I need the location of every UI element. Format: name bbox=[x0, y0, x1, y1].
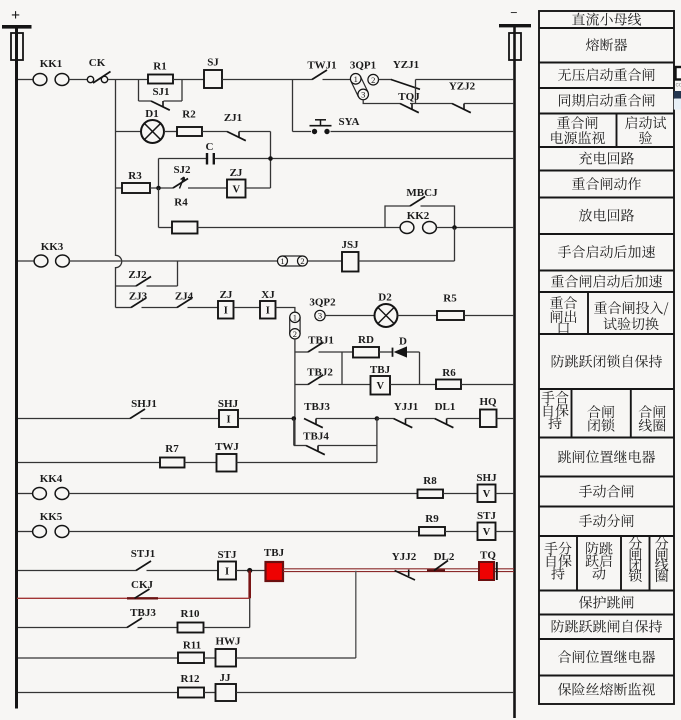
svg-text:TBJ: TBJ bbox=[264, 547, 285, 559]
svg-text:co: co bbox=[676, 82, 681, 89]
svg-text:I: I bbox=[266, 306, 270, 317]
svg-text:R11: R11 bbox=[183, 640, 201, 652]
cropped overlay box at right edge bbox=[676, 67, 681, 80]
svg-text:TQ: TQ bbox=[480, 550, 496, 562]
svg-text:C: C bbox=[206, 141, 214, 153]
switch CK bbox=[87, 57, 110, 83]
svg-text:I: I bbox=[224, 306, 228, 317]
wire D2 to R5 bbox=[398, 315, 438, 317]
function table frame bbox=[539, 11, 674, 704]
capacitor C bbox=[206, 141, 214, 165]
node junction KK2/JSJ bbox=[452, 225, 457, 230]
wire vertical from 3QP2 pin2 down to TBJ rows bbox=[294, 339, 296, 446]
wire vertical ZJ2 to KK3 row bbox=[177, 261, 179, 286]
wire SJ1 parallel branch verticals bbox=[139, 80, 183, 102]
svg-text:YZJ2: YZJ2 bbox=[449, 81, 476, 93]
relay coil (voltage) ZJ bbox=[227, 167, 246, 198]
resistor R2 bbox=[177, 109, 202, 137]
svg-text:JSJ: JSJ bbox=[341, 239, 359, 251]
table text 充电回路 bbox=[579, 152, 634, 165]
table text 手动分闸 bbox=[579, 514, 634, 527]
svg-text:−: − bbox=[510, 5, 517, 20]
DC negative bus (-) with bar bbox=[499, 5, 531, 718]
contact DL2 (NO) bbox=[427, 551, 455, 571]
table text 手合自保持 bbox=[541, 391, 568, 404]
push button SYA bbox=[310, 116, 360, 134]
relay coil JSJ bbox=[341, 239, 359, 272]
table text 重合闸动作 bbox=[572, 177, 641, 190]
node junction to anti-pump path bbox=[247, 568, 252, 573]
wire + bus to KK4 bbox=[18, 493, 33, 495]
wire red CKJ row (y=598.3) bbox=[17, 597, 250, 599]
wire vertical x=270.5 (ZJ1 row to ZJ coil row) bbox=[270, 132, 272, 189]
relay coil (voltage) SHJ bbox=[476, 472, 497, 502]
wire row1 from + bus to KK1 bbox=[18, 79, 34, 81]
wire to R4 bbox=[159, 227, 173, 229]
table text 无压启动重合闸 bbox=[558, 68, 655, 81]
svg-text:3: 3 bbox=[361, 90, 365, 100]
svg-text:R7: R7 bbox=[165, 443, 179, 455]
contact ZJ1 (NC) bbox=[224, 112, 246, 141]
node junction R3/SJ2 bbox=[156, 186, 161, 191]
contact YZJ1 (NC) bbox=[391, 59, 420, 89]
svg-text:1: 1 bbox=[293, 313, 297, 323]
wire 3QP1 pin3 down to TQJ row bbox=[363, 100, 400, 104]
table text 手分自保持 bbox=[544, 542, 571, 555]
svg-text:SJ2: SJ2 bbox=[173, 164, 191, 176]
svg-text:D2: D2 bbox=[378, 292, 392, 304]
wire RD to diode D bbox=[379, 351, 392, 353]
resistor R5 bbox=[437, 293, 464, 321]
wire + bus to R12 bbox=[18, 692, 178, 694]
relay coil TBJ (operated, highlighted red) bbox=[264, 547, 285, 581]
resistor R4 bbox=[172, 197, 198, 234]
relay coil (current) SHJ bbox=[218, 398, 239, 427]
wire junction to YJJ1 bbox=[377, 418, 394, 420]
wire conductor to R3 bbox=[116, 187, 123, 189]
fuse FU1 on left bus bbox=[11, 33, 23, 60]
svg-text:KK5: KK5 bbox=[40, 511, 63, 523]
contact TBJ1 (NO) bbox=[308, 335, 334, 353]
wire YZJ2 to - bus bbox=[464, 103, 514, 105]
wire vertical TBJ3 junction down to TWJ row (x=376.9) bbox=[376, 419, 378, 463]
wire R12 to JJ bbox=[204, 692, 216, 694]
wire 3QP1-2 to YZJ1 bbox=[379, 79, 393, 81]
resistor R12 bbox=[178, 673, 204, 698]
svg-text:MBCJ: MBCJ bbox=[406, 187, 438, 199]
svg-text:R12: R12 bbox=[181, 673, 200, 685]
table text 分闸闭锁 bbox=[629, 537, 642, 550]
svg-text:TBJ4: TBJ4 bbox=[303, 431, 329, 443]
contact ZJ3 (NO) bbox=[129, 291, 148, 308]
svg-text:SJ1: SJ1 bbox=[152, 86, 169, 98]
wire + bus to KK5 bbox=[18, 531, 33, 533]
svg-text:TBJ3: TBJ3 bbox=[304, 401, 330, 413]
svg-text:TWJ: TWJ bbox=[215, 441, 239, 453]
svg-text:TQJ: TQJ bbox=[398, 91, 420, 103]
svg-text:SJ: SJ bbox=[207, 57, 219, 69]
table text 保险丝熔断监视 bbox=[558, 683, 655, 696]
wire TQJ to YZJ2 bbox=[410, 103, 452, 105]
svg-text:3QP1: 3QP1 bbox=[350, 60, 376, 72]
svg-text:R3: R3 bbox=[128, 170, 142, 182]
table text 重合闸电源监视 bbox=[557, 116, 598, 129]
svg-text:DL1: DL1 bbox=[435, 401, 456, 413]
wire SYA branch vertical from row1 bbox=[292, 80, 294, 132]
contact ZJ2 (NO) bbox=[128, 269, 151, 286]
wire ZJ coil to vertical bbox=[246, 187, 271, 189]
wire plug to JSJ bbox=[308, 260, 342, 262]
wire STJ1 to STJ coil bbox=[147, 570, 219, 572]
contact DL1 (NC) bbox=[435, 401, 456, 428]
svg-text:RD: RD bbox=[358, 334, 374, 346]
wire R10 to vertical bbox=[204, 627, 250, 629]
wire vertical KK2-junction to JSJ row bbox=[454, 228, 456, 262]
switch KK5 bbox=[33, 511, 69, 538]
contact MBCJ (NO) bbox=[406, 187, 438, 206]
svg-text:STJ: STJ bbox=[218, 549, 237, 561]
resistor R8 bbox=[418, 475, 444, 498]
node junction TBJ3 right bbox=[375, 416, 380, 421]
table text 跳闸位置继电器 bbox=[558, 450, 655, 463]
table text 熔断器 bbox=[586, 38, 627, 51]
resistor R11 bbox=[178, 640, 204, 664]
wire KK4 to R8 bbox=[69, 493, 418, 495]
wire ZJ3 to ZJ4 bbox=[142, 307, 178, 309]
contact TBJ2 (NO) bbox=[307, 367, 333, 385]
relay coil SJ bbox=[204, 57, 222, 89]
wire C to - bus bbox=[215, 158, 515, 160]
svg-text:KK3: KK3 bbox=[41, 241, 64, 253]
wire R4 to KK2 bbox=[198, 227, 401, 229]
wire DL1 to HQ bbox=[447, 418, 480, 420]
table text 合闸闭锁 bbox=[588, 405, 615, 418]
svg-text:ZJ4: ZJ4 bbox=[175, 291, 194, 303]
wire ZJ to XJ bbox=[234, 307, 261, 309]
resistor R9 bbox=[419, 513, 445, 536]
wire STJ to - bus bbox=[496, 531, 515, 533]
contact TQJ (NC) bbox=[398, 91, 420, 113]
wire + bus to R7 bbox=[18, 462, 160, 464]
wire HQ to - bus bbox=[497, 418, 515, 420]
wire conductor to ZJ3 bbox=[116, 307, 132, 309]
svg-text:JJ: JJ bbox=[220, 672, 232, 684]
svg-text:YJJ2: YJJ2 bbox=[392, 551, 417, 563]
table text 重合闸出口 bbox=[550, 296, 577, 309]
wire MBCJ parallel branch bbox=[385, 206, 455, 228]
resistor R7 bbox=[160, 443, 185, 468]
wire KK3 to plug bbox=[69, 260, 278, 262]
wire to TBJ4 bbox=[294, 445, 306, 447]
svg-text:2: 2 bbox=[371, 75, 375, 85]
svg-text:ZJ1: ZJ1 bbox=[224, 112, 242, 124]
wire JJ to - bus bbox=[236, 692, 514, 694]
svg-text:ZJ3: ZJ3 bbox=[129, 291, 148, 303]
cropped overlay navy bar bbox=[674, 91, 681, 99]
svg-text:STJ: STJ bbox=[477, 510, 496, 522]
relay coil JJ bbox=[216, 672, 237, 701]
contact YZJ2 (NC) bbox=[449, 81, 476, 113]
contact YJJ2 (NC) bbox=[392, 551, 417, 580]
resistor R3 bbox=[122, 170, 150, 193]
svg-text:SHJ: SHJ bbox=[218, 398, 239, 410]
wire YZJ1 to - bus bbox=[416, 79, 515, 81]
wire SJ2 to ZJ coil bbox=[188, 187, 227, 189]
table text 合闸位置继电器 bbox=[558, 650, 655, 663]
svg-text:KK1: KK1 bbox=[40, 58, 63, 70]
svg-text:CK: CK bbox=[89, 57, 106, 69]
table text 启动试验 bbox=[625, 116, 666, 129]
svg-text:XJ: XJ bbox=[261, 289, 275, 301]
wire R9 to STJ coil bbox=[445, 531, 478, 533]
relay coil HWJ bbox=[215, 636, 241, 667]
table text 重合闸启动后加速 bbox=[551, 275, 662, 288]
contact ZJ4 (NO) bbox=[175, 291, 194, 308]
wire R6 to - bus bbox=[461, 384, 514, 386]
wire KK5 to R9 bbox=[69, 531, 419, 533]
svg-text:R9: R9 bbox=[425, 513, 439, 525]
contact TBJ4 (NC) bbox=[303, 431, 329, 455]
relay coil (current) STJ bbox=[218, 549, 237, 580]
node junction TBJ3 left bbox=[292, 416, 297, 421]
connector 3QP1 (pins 1,2,3) bbox=[351, 77, 368, 97]
wire vertical RD/D row to R6 row (x=419.5) bbox=[419, 352, 421, 385]
svg-text:V: V bbox=[376, 381, 384, 392]
svg-text:TBJ1: TBJ1 bbox=[308, 335, 334, 347]
wire + bus to STJ1 bbox=[18, 570, 136, 572]
svg-text:YZJ1: YZJ1 bbox=[393, 59, 419, 71]
wire red trip path TBJ to TQ bbox=[283, 569, 514, 572]
svg-text:D: D bbox=[399, 336, 407, 348]
time-delay arrow of SJ2 bbox=[180, 177, 185, 189]
wire TBJ3 to junction bbox=[316, 418, 377, 420]
contact TBJ3 (NC) bbox=[304, 401, 330, 428]
svg-text:1: 1 bbox=[354, 74, 358, 84]
svg-text:SHJ1: SHJ1 bbox=[131, 398, 157, 410]
svg-text:1: 1 bbox=[280, 256, 284, 266]
relay coil (current) ZJ bbox=[218, 289, 234, 319]
wire + bus to TBJ3 bbox=[18, 627, 127, 629]
svg-text:3: 3 bbox=[318, 311, 322, 321]
relay coil HQ bbox=[479, 396, 497, 427]
table text 保护跳闸 bbox=[579, 596, 634, 609]
svg-text:KK4: KK4 bbox=[40, 473, 63, 485]
table text 手合启动后加速 bbox=[558, 245, 655, 258]
table text 直流小母线 bbox=[572, 13, 641, 26]
table text 放电回路 bbox=[579, 209, 634, 222]
wire TBJ1 to RD bbox=[319, 351, 354, 353]
wire TBJ2 to TBJ coil bbox=[319, 384, 371, 386]
contact SHJ1 (NO) bbox=[130, 398, 157, 419]
wire vertical junction down to R10 row bbox=[249, 598, 251, 627]
table text 重合闸投入/试验切换 bbox=[594, 301, 668, 315]
contact SJ2 (NO) bbox=[173, 164, 191, 188]
table text 分闸线圈 bbox=[655, 537, 668, 550]
fuse FU2 on right bus bbox=[509, 33, 521, 60]
svg-text:YJJ1: YJJ1 bbox=[394, 401, 418, 413]
wire ZJ1 to vertical bbox=[239, 131, 271, 133]
svg-text:V: V bbox=[483, 527, 491, 538]
connector 3QP2 (pins 1,2,3) bbox=[290, 317, 300, 334]
wire TBJ4 to vertical bbox=[318, 445, 377, 447]
wire + bus to SHJ1 bbox=[18, 418, 130, 420]
wire KK1 to CK bbox=[68, 79, 87, 81]
wire ZJ4 to ZJ coil bbox=[188, 307, 219, 309]
svg-text:+: + bbox=[11, 7, 20, 24]
svg-text:R10: R10 bbox=[181, 608, 200, 620]
wire R1 to SJ bbox=[173, 79, 204, 81]
resistor R1 bbox=[148, 61, 173, 84]
wire KK2 to - bus bbox=[436, 227, 514, 229]
relay coil (voltage) STJ bbox=[477, 510, 496, 540]
switch KK1 bbox=[33, 58, 69, 86]
wire YZJ1 down to TQJ row bbox=[415, 80, 417, 104]
svg-text:3QP2: 3QP2 bbox=[309, 297, 336, 309]
table text 手动合闸 bbox=[579, 485, 634, 498]
wire JSJ to vertical bbox=[359, 260, 455, 262]
svg-text:SHJ: SHJ bbox=[476, 472, 497, 484]
contact STJ1 (NO) bbox=[131, 548, 155, 571]
table text 防跳跃启动 bbox=[586, 542, 612, 555]
svg-text:HQ: HQ bbox=[479, 396, 497, 408]
wire to TBJ2 bbox=[295, 384, 308, 386]
wire STJ coil to TBJ coil bbox=[236, 570, 266, 572]
wire SHJ to - bus bbox=[496, 493, 515, 495]
svg-text:I: I bbox=[225, 566, 229, 577]
svg-text:V: V bbox=[232, 184, 240, 195]
svg-text:R1: R1 bbox=[153, 61, 166, 73]
wire C row left vertical bbox=[158, 159, 160, 189]
wire conductor to ZJ2 bbox=[116, 285, 137, 287]
wire vertical TQ row down to HWJ row (x=355.8) bbox=[355, 571, 357, 658]
svg-text:R4: R4 bbox=[174, 197, 188, 209]
wire R8 to SHJ coil bbox=[443, 493, 478, 495]
diode D bbox=[393, 336, 408, 358]
contact CKJ (NO) bbox=[127, 579, 158, 598]
svg-text:ZJ: ZJ bbox=[220, 289, 233, 301]
wire + bus to R11 bbox=[18, 657, 178, 659]
resistor R10 bbox=[178, 608, 204, 633]
svg-text:I: I bbox=[226, 414, 230, 425]
table text 防跳跃闭锁自保持 bbox=[552, 355, 662, 368]
wire D1 to R2 bbox=[164, 131, 177, 133]
svg-text:TBJ3: TBJ3 bbox=[130, 607, 156, 619]
switch KK3 bbox=[34, 241, 69, 267]
svg-text:D1: D1 bbox=[145, 108, 158, 120]
relay coil (voltage) TBJ bbox=[370, 364, 391, 395]
resistor R6 bbox=[436, 367, 461, 389]
wire TWJ to vertical bbox=[237, 462, 377, 464]
wire SHJ to junction bbox=[238, 418, 294, 420]
lamp D1 bbox=[141, 108, 164, 143]
contact TBJ3 (NO) bbox=[127, 607, 156, 628]
svg-text:TBJ2: TBJ2 bbox=[307, 367, 333, 379]
wire vertical TBJ1-TBJ2 (x=342) bbox=[341, 352, 343, 385]
wire XJ to connector 3QP2 bbox=[276, 308, 295, 313]
svg-text:ZJ: ZJ bbox=[230, 167, 243, 179]
svg-text:V: V bbox=[483, 489, 491, 500]
svg-text:HWJ: HWJ bbox=[215, 636, 241, 648]
connector plug (pins 1,2) on JSJ row bbox=[283, 256, 303, 266]
wire to capacitor C bbox=[159, 158, 207, 160]
svg-text:STJ1: STJ1 bbox=[131, 548, 155, 560]
wire R3 to SJ2 bbox=[150, 187, 173, 189]
svg-text:SYA: SYA bbox=[339, 116, 360, 128]
relay coil (current) XJ bbox=[260, 289, 276, 319]
wire vertical conductor A (x=115.5) with hop over KK3 row bbox=[116, 80, 122, 308]
svg-text:2: 2 bbox=[293, 329, 297, 339]
svg-text:KK2: KK2 bbox=[407, 210, 430, 222]
wire R11 to HWJ bbox=[204, 657, 216, 659]
svg-text:TWJ1: TWJ1 bbox=[307, 60, 336, 72]
table text 合闸线圈 bbox=[639, 405, 666, 418]
contact YJJ1 (NC) bbox=[394, 401, 419, 428]
resistor RD bbox=[353, 334, 379, 358]
svg-text:DL2: DL2 bbox=[434, 551, 455, 563]
relay coil TWJ bbox=[215, 441, 239, 472]
wire 3QP2-3 to D2 bbox=[325, 315, 374, 317]
wire to TBJ1 bbox=[295, 351, 308, 353]
wire CK to R1 bbox=[108, 79, 148, 81]
table text 同期启动重合闸 bbox=[559, 94, 655, 107]
wire vertical TBJ4 left (x=293.8) bbox=[293, 419, 295, 446]
wire SYA row to - bus bbox=[293, 131, 515, 133]
svg-text:R2: R2 bbox=[182, 109, 196, 121]
switch KK2 bbox=[400, 210, 436, 234]
wire + bus to KK3 bbox=[18, 260, 34, 262]
wire conductor to D1 bbox=[116, 131, 142, 133]
svg-text:CKJ: CKJ bbox=[131, 579, 154, 591]
wire D to vertical bbox=[407, 351, 420, 353]
wire HWJ to vertical bbox=[236, 657, 356, 659]
svg-text:R8: R8 bbox=[423, 475, 437, 487]
wire TBJ3 to R10 bbox=[138, 627, 178, 629]
wire R7 to TWJ bbox=[185, 462, 217, 464]
switch KK4 bbox=[33, 473, 69, 500]
wire R5 to - bus bbox=[464, 315, 514, 317]
wire SHJ1 to SHJ coil bbox=[141, 418, 220, 420]
svg-text:2: 2 bbox=[300, 256, 304, 266]
node junction on C row bbox=[268, 156, 273, 161]
wire ZJ2 to vertical bbox=[147, 285, 178, 287]
wire vertical junction to R4 row bbox=[158, 188, 160, 228]
svg-text:ZJ2: ZJ2 bbox=[128, 269, 147, 281]
svg-text:R5: R5 bbox=[443, 293, 457, 305]
lamp D2 bbox=[375, 292, 398, 328]
wire red vertical self-hold (x=249.7) bbox=[248, 571, 251, 599]
wire TBJ coil to R6 bbox=[390, 384, 436, 386]
wire SJ to TWJ1 bbox=[222, 79, 312, 81]
svg-text:TBJ: TBJ bbox=[370, 364, 391, 376]
DC positive bus (+) with bar bbox=[2, 7, 32, 709]
relay coil TQ (trip coil, highlighted red) bbox=[479, 550, 497, 581]
wire YJJ1 to DL1 bbox=[406, 418, 435, 420]
wire TWJ1 to 3QP1 bbox=[323, 79, 351, 81]
table text 防跳跃跳闸自保持 bbox=[552, 620, 662, 633]
contact TWJ1 (NO) bbox=[307, 60, 336, 80]
wire R2 to ZJ1 bbox=[202, 131, 227, 133]
svg-text:R6: R6 bbox=[442, 367, 456, 379]
contact SJ1 (NC) bbox=[151, 86, 170, 110]
